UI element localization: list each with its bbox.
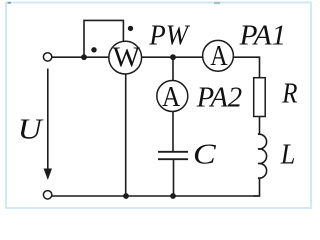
- wire voltage-coil loop of wattmeter: [84, 20, 123, 57]
- wire wattmeter to junction 2: [142, 56, 173, 58]
- wire capacitor to bottom wire: [173, 160, 175, 196]
- node junction before W: [81, 54, 87, 60]
- wattmeter PW (W circle): [109, 41, 142, 74]
- wire bottom return: [52, 195, 260, 197]
- resistor R: [254, 78, 266, 117]
- capacitor C plate top: [158, 151, 188, 153]
- wire inductor to bottom wire: [253, 178, 260, 196]
- polarity dot near junction: [91, 47, 96, 52]
- svg-text:A: A: [210, 41, 228, 72]
- svg-text:PA2: PA2: [196, 81, 242, 113]
- wire PA1 to resistor R: [234, 57, 260, 77]
- wire junction to wattmeter: [84, 56, 109, 58]
- ammeter PA1 (A circle): [203, 40, 234, 71]
- svg-text:U: U: [18, 114, 44, 146]
- svg-text:PW: PW: [148, 20, 190, 52]
- wire U arrow shaft: [47, 69, 49, 171]
- svg-text:R: R: [281, 77, 297, 109]
- wire terminal to junction: [52, 56, 84, 58]
- inductor L: [258, 134, 267, 179]
- ammeter PA2 (A circle): [157, 81, 188, 112]
- svg-text:W: W: [113, 42, 141, 73]
- wire resistor to inductor: [259, 117, 261, 135]
- node junction bottom (wattmeter branch): [123, 193, 129, 199]
- node junction bottom (capacitor branch): [170, 193, 176, 199]
- terminal (bottom-left input): [43, 191, 51, 199]
- wire PA2 to capacitor: [172, 112, 174, 152]
- polarity dot near wattmeter top: [128, 26, 133, 31]
- wire junction to ammeter PA1: [173, 56, 203, 58]
- svg-text:PA1: PA1: [239, 20, 287, 52]
- wire junction down to ammeter PA2: [172, 57, 174, 81]
- svg-text:A: A: [162, 82, 181, 113]
- arrowhead of U: [44, 169, 52, 181]
- node junction after W: [170, 54, 176, 60]
- terminal (top-left input): [43, 53, 51, 61]
- wire wattmeter bottom to bottom wire: [125, 74, 127, 196]
- svg-text:L: L: [280, 138, 296, 170]
- svg-text:C: C: [193, 138, 216, 170]
- capacitor C plate bottom: [158, 158, 188, 160]
